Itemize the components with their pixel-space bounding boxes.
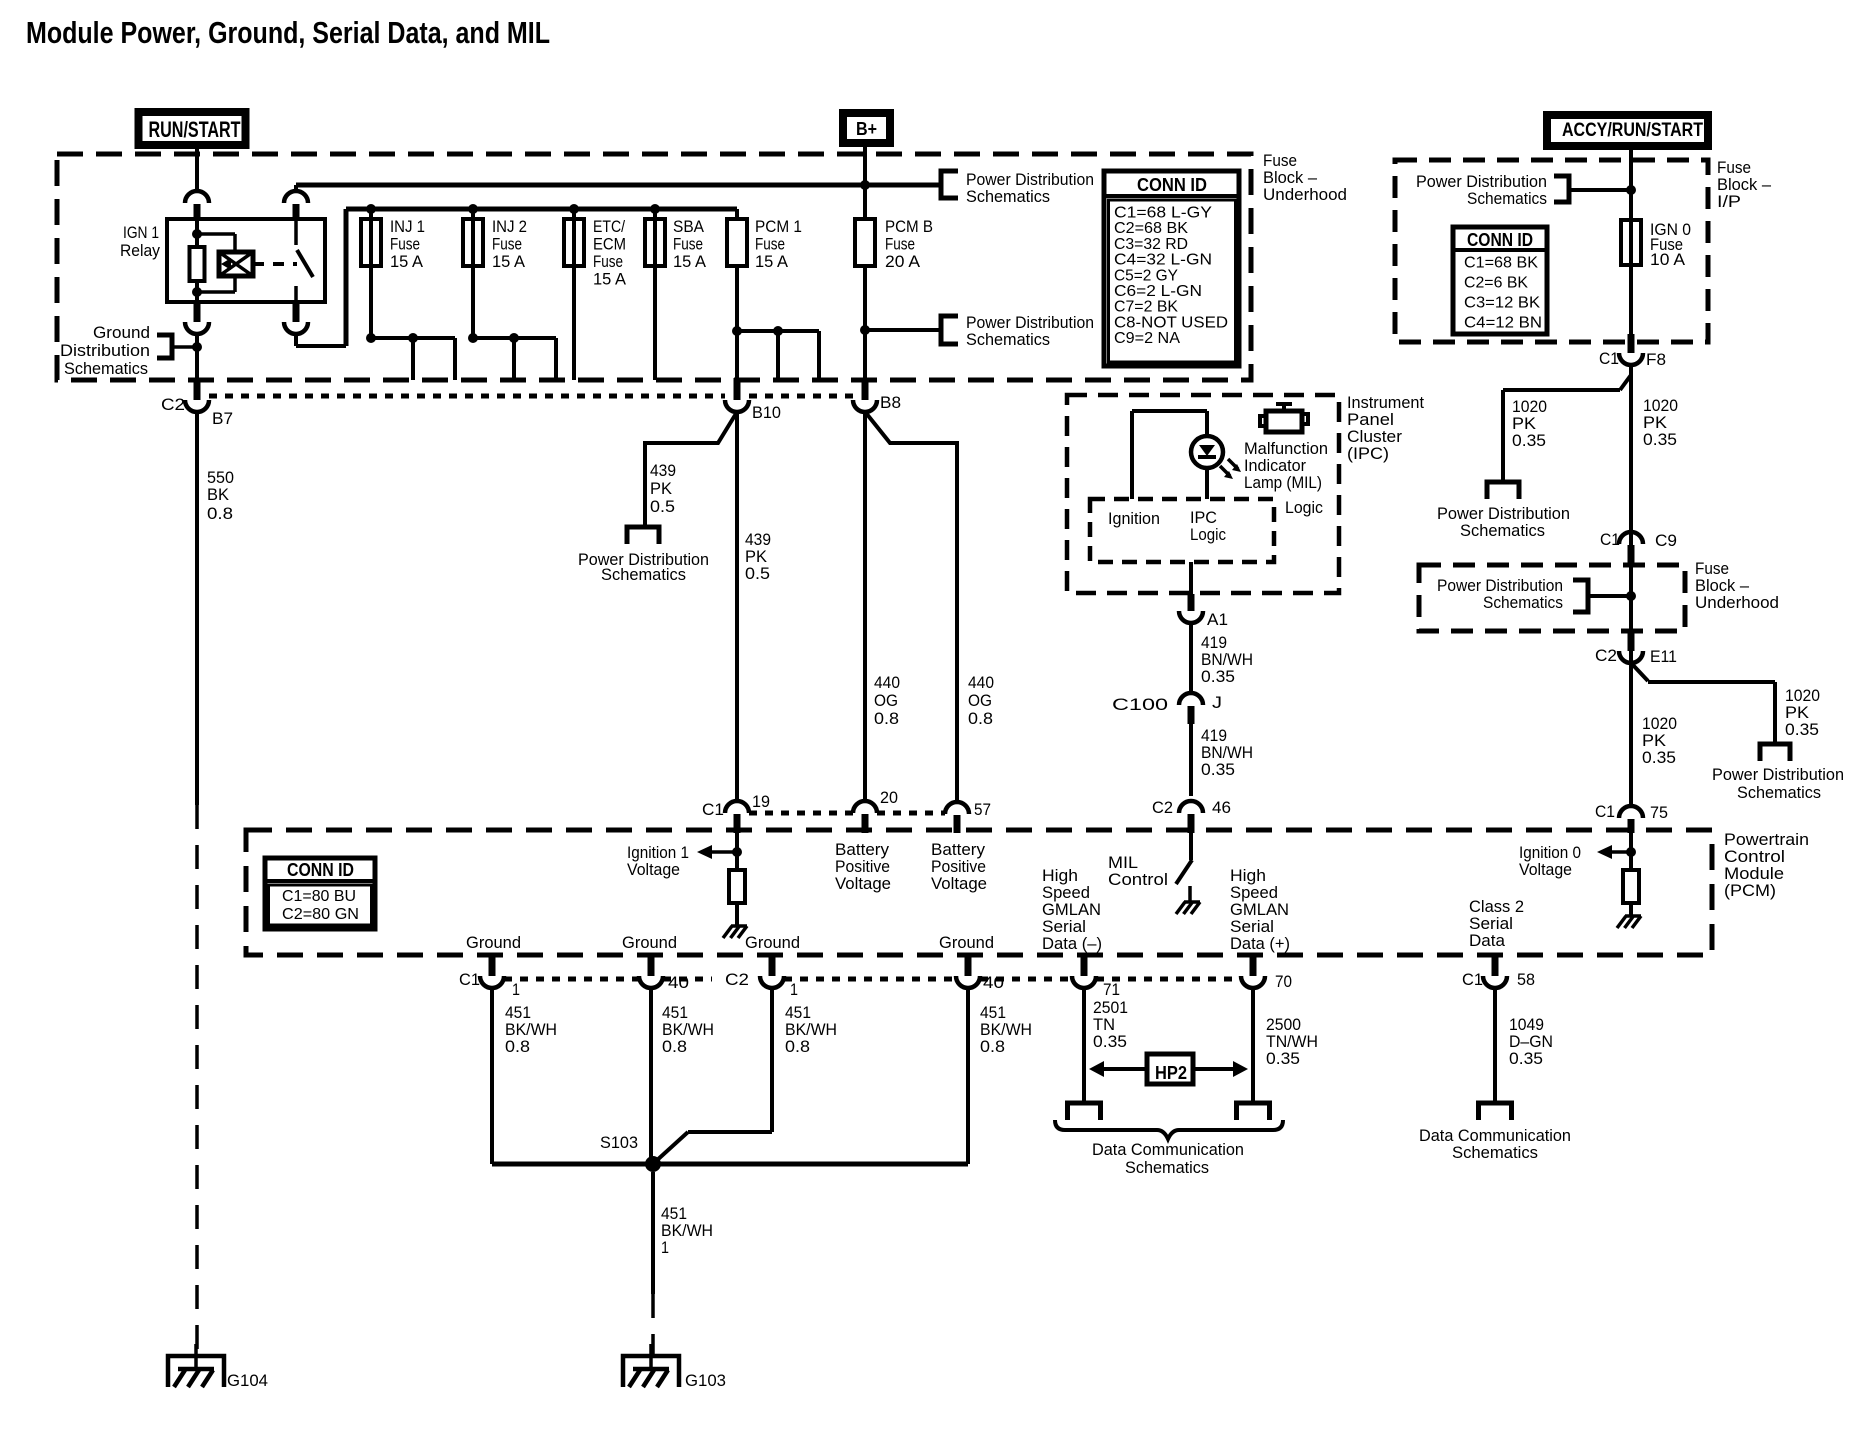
svg-text:CONN ID: CONN ID bbox=[287, 860, 354, 880]
svg-text:0.35: 0.35 bbox=[1643, 430, 1677, 449]
svg-text:1: 1 bbox=[661, 1238, 669, 1257]
svg-text:1: 1 bbox=[512, 980, 520, 999]
svg-text:Data Communication: Data Communication bbox=[1092, 1140, 1244, 1159]
svg-text:SBA: SBA bbox=[673, 217, 705, 236]
svg-text:20 A: 20 A bbox=[885, 252, 921, 271]
svg-text:Data (–): Data (–) bbox=[1042, 934, 1102, 953]
svg-text:CONN ID: CONN ID bbox=[1137, 175, 1207, 195]
svg-text:0.5: 0.5 bbox=[650, 497, 675, 516]
svg-text:Ignition: Ignition bbox=[1108, 509, 1160, 528]
svg-text:Ground: Ground bbox=[939, 933, 994, 952]
svg-text:440: 440 bbox=[874, 673, 900, 692]
svg-text:C2=68 BK: C2=68 BK bbox=[1114, 220, 1188, 237]
svg-text:HP2: HP2 bbox=[1155, 1063, 1187, 1083]
svg-text:C2: C2 bbox=[1152, 798, 1173, 817]
svg-text:Data: Data bbox=[1469, 931, 1506, 950]
svg-text:Voltage: Voltage bbox=[627, 860, 680, 879]
svg-text:40: 40 bbox=[983, 973, 1004, 992]
svg-text:Control: Control bbox=[1108, 870, 1168, 889]
svg-text:Fuse: Fuse bbox=[755, 235, 785, 254]
svg-text:Ground: Ground bbox=[622, 933, 677, 952]
svg-text:ECM: ECM bbox=[593, 235, 626, 254]
svg-text:G103: G103 bbox=[685, 1371, 726, 1390]
svg-text:19: 19 bbox=[752, 792, 770, 811]
svg-text:INJ 1: INJ 1 bbox=[390, 217, 425, 236]
svg-text:0.35: 0.35 bbox=[1093, 1032, 1127, 1051]
svg-text:PCM 1: PCM 1 bbox=[755, 217, 802, 236]
svg-text:46: 46 bbox=[1212, 798, 1231, 817]
svg-text:15 A: 15 A bbox=[673, 252, 707, 271]
svg-text:440: 440 bbox=[968, 673, 994, 692]
svg-text:15 A: 15 A bbox=[755, 252, 789, 271]
svg-text:C4=12 BN: C4=12 BN bbox=[1464, 315, 1542, 332]
svg-text:C1: C1 bbox=[1462, 970, 1483, 989]
svg-text:70: 70 bbox=[1275, 972, 1292, 991]
svg-text:1: 1 bbox=[790, 980, 798, 999]
svg-text:E11: E11 bbox=[1650, 647, 1677, 666]
svg-text:15 A: 15 A bbox=[492, 252, 526, 271]
svg-text:C4=32 L-GN: C4=32 L-GN bbox=[1114, 252, 1212, 269]
svg-text:0.8: 0.8 bbox=[785, 1037, 810, 1056]
svg-text:B7: B7 bbox=[212, 409, 233, 428]
svg-text:C8-NOT USED: C8-NOT USED bbox=[1114, 314, 1228, 331]
svg-text:75: 75 bbox=[1650, 803, 1668, 822]
svg-text:OG: OG bbox=[874, 691, 898, 710]
svg-text:C9=2 NA: C9=2 NA bbox=[1114, 330, 1180, 347]
svg-text:C7=2 BK: C7=2 BK bbox=[1114, 299, 1178, 316]
svg-text:C100: C100 bbox=[1112, 695, 1168, 714]
svg-text:INJ 2: INJ 2 bbox=[492, 217, 527, 236]
svg-text:C9: C9 bbox=[1655, 531, 1677, 550]
svg-text:ETC/: ETC/ bbox=[593, 217, 625, 236]
svg-text:Fuse: Fuse bbox=[593, 252, 623, 271]
svg-text:Voltage: Voltage bbox=[835, 874, 891, 893]
svg-text:15 A: 15 A bbox=[593, 270, 627, 289]
svg-text:C2=80 GN: C2=80 GN bbox=[282, 906, 359, 923]
svg-text:PK: PK bbox=[650, 479, 673, 498]
svg-text:C2: C2 bbox=[161, 395, 185, 414]
svg-text:Underhood: Underhood bbox=[1263, 185, 1347, 204]
svg-text:F8: F8 bbox=[1646, 350, 1666, 369]
svg-text:Fuse: Fuse bbox=[390, 235, 420, 254]
svg-text:0.8: 0.8 bbox=[207, 504, 233, 523]
svg-text:Fuse: Fuse bbox=[673, 235, 703, 254]
svg-text:Schematics: Schematics bbox=[1467, 189, 1547, 208]
svg-text:B+: B+ bbox=[856, 119, 877, 139]
svg-text:Module Power, Ground, Serial D: Module Power, Ground, Serial Data, and M… bbox=[26, 15, 550, 50]
svg-text:C1=80 BU: C1=80 BU bbox=[282, 888, 356, 905]
svg-text:Fuse: Fuse bbox=[492, 235, 522, 254]
svg-text:Distribution: Distribution bbox=[60, 341, 150, 360]
svg-text:A1: A1 bbox=[1207, 610, 1228, 629]
svg-text:C1: C1 bbox=[1595, 802, 1615, 821]
svg-text:CONN ID: CONN ID bbox=[1467, 230, 1533, 250]
svg-text:IGN 1: IGN 1 bbox=[123, 223, 159, 242]
svg-text:PCM B: PCM B bbox=[885, 217, 933, 236]
svg-text:C3=32 RD: C3=32 RD bbox=[1114, 236, 1188, 253]
svg-text:Underhood: Underhood bbox=[1695, 593, 1779, 612]
svg-text:ACCY/RUN/START: ACCY/RUN/START bbox=[1562, 120, 1703, 141]
svg-text:0.8: 0.8 bbox=[874, 709, 899, 728]
svg-text:Schematics: Schematics bbox=[966, 330, 1050, 349]
svg-text:C1: C1 bbox=[459, 970, 480, 989]
svg-text:0.35: 0.35 bbox=[1512, 431, 1546, 450]
svg-text:0.35: 0.35 bbox=[1266, 1049, 1300, 1068]
svg-text:Schematics: Schematics bbox=[601, 565, 686, 584]
svg-text:Logic: Logic bbox=[1285, 498, 1323, 517]
svg-text:B10: B10 bbox=[752, 403, 781, 422]
svg-text:Ground: Ground bbox=[466, 933, 521, 952]
svg-text:0.35: 0.35 bbox=[1642, 748, 1676, 767]
svg-text:Schematics: Schematics bbox=[1483, 593, 1563, 612]
svg-text:C2: C2 bbox=[725, 970, 749, 989]
svg-text:C1: C1 bbox=[702, 800, 724, 819]
svg-text:0.8: 0.8 bbox=[980, 1037, 1005, 1056]
svg-text:Ground: Ground bbox=[93, 323, 150, 342]
svg-text:I/P: I/P bbox=[1717, 192, 1741, 211]
svg-text:Schematics: Schematics bbox=[64, 359, 148, 378]
svg-text:RUN/START: RUN/START bbox=[149, 117, 241, 142]
svg-text:Schematics: Schematics bbox=[1452, 1143, 1538, 1162]
svg-text:OG: OG bbox=[968, 691, 992, 710]
svg-text:(PCM): (PCM) bbox=[1724, 881, 1776, 900]
svg-text:15 A: 15 A bbox=[390, 252, 424, 271]
svg-text:S103: S103 bbox=[600, 1133, 638, 1152]
svg-text:C2=6 BK: C2=6 BK bbox=[1464, 275, 1528, 292]
svg-text:40: 40 bbox=[668, 973, 689, 992]
svg-text:71: 71 bbox=[1103, 980, 1120, 999]
svg-text:57: 57 bbox=[974, 800, 991, 819]
svg-text:0.35: 0.35 bbox=[1509, 1049, 1543, 1068]
svg-text:0.8: 0.8 bbox=[505, 1037, 530, 1056]
svg-text:58: 58 bbox=[1517, 970, 1535, 989]
svg-text:0.8: 0.8 bbox=[662, 1037, 687, 1056]
svg-text:C1: C1 bbox=[1599, 349, 1619, 368]
svg-text:Data (+): Data (+) bbox=[1230, 934, 1290, 953]
svg-text:Schematics: Schematics bbox=[1460, 521, 1545, 540]
svg-text:Logic: Logic bbox=[1190, 525, 1226, 544]
svg-text:(IPC): (IPC) bbox=[1347, 444, 1389, 463]
svg-text:0.8: 0.8 bbox=[968, 709, 993, 728]
svg-text:20: 20 bbox=[880, 788, 898, 807]
svg-text:B8: B8 bbox=[880, 393, 901, 412]
svg-text:0.35: 0.35 bbox=[1201, 667, 1235, 686]
svg-text:10 A: 10 A bbox=[1650, 250, 1686, 269]
svg-text:Voltage: Voltage bbox=[931, 874, 987, 893]
svg-text:J: J bbox=[1212, 693, 1222, 712]
svg-text:0.5: 0.5 bbox=[745, 564, 770, 583]
svg-text:BK: BK bbox=[207, 485, 230, 504]
svg-text:C2: C2 bbox=[1595, 646, 1617, 665]
svg-text:C5=2 GY: C5=2 GY bbox=[1114, 267, 1178, 284]
svg-text:Ground: Ground bbox=[745, 933, 800, 952]
svg-text:C1=68 BK: C1=68 BK bbox=[1464, 255, 1538, 272]
svg-text:C6=2 L-GN: C6=2 L-GN bbox=[1114, 283, 1202, 300]
svg-text:C1: C1 bbox=[1600, 530, 1620, 549]
svg-text:Fuse: Fuse bbox=[885, 235, 915, 254]
svg-text:G104: G104 bbox=[227, 1371, 268, 1390]
svg-text:Relay: Relay bbox=[120, 241, 160, 260]
svg-text:Schematics: Schematics bbox=[1125, 1158, 1209, 1177]
svg-text:Power Distribution: Power Distribution bbox=[1712, 765, 1844, 784]
svg-text:Voltage: Voltage bbox=[1519, 860, 1572, 879]
svg-text:Schematics: Schematics bbox=[966, 187, 1050, 206]
svg-text:C3=12 BK: C3=12 BK bbox=[1464, 295, 1540, 312]
svg-text:439: 439 bbox=[650, 461, 676, 480]
svg-text:Lamp (MIL): Lamp (MIL) bbox=[1244, 473, 1322, 492]
svg-text:C1=68 L-GY: C1=68 L-GY bbox=[1114, 205, 1212, 222]
svg-text:0.35: 0.35 bbox=[1785, 720, 1819, 739]
svg-text:Schematics: Schematics bbox=[1737, 783, 1821, 802]
svg-text:0.35: 0.35 bbox=[1201, 760, 1235, 779]
